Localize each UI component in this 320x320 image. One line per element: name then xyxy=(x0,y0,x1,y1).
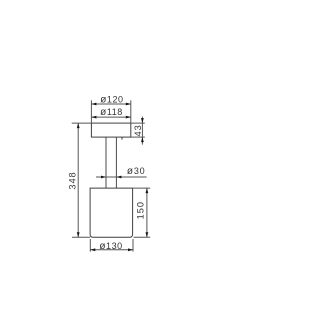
extension line left of dia120/dia118 xyxy=(90,100,92,123)
dim150 top arrow xyxy=(146,188,149,193)
stem right line xyxy=(115,137,117,188)
stem left line xyxy=(105,137,107,188)
svg-text:ø120: ø120 xyxy=(100,95,123,106)
dim43 upper arrow xyxy=(141,118,144,123)
dia118 right arrow xyxy=(126,116,131,119)
dim43 top extension line xyxy=(131,122,145,124)
dia120 right arrow xyxy=(126,103,131,106)
dia30 right arrow xyxy=(116,176,121,179)
dim150 top extension line xyxy=(133,187,151,189)
dim43 dimension line xyxy=(141,117,143,145)
body outline xyxy=(90,188,133,237)
svg-text:ø30: ø30 xyxy=(127,166,146,177)
lamp head disc outline xyxy=(91,123,130,137)
extension line right of dia120/dia118 xyxy=(130,100,132,123)
dia30 left arrow xyxy=(101,176,106,179)
dim348 bottom extension line xyxy=(72,236,90,238)
dia120 left arrow xyxy=(91,103,96,106)
svg-text:348: 348 xyxy=(67,171,77,189)
dim43 bottom extension line xyxy=(131,136,145,138)
dim348 top extension line xyxy=(72,122,92,124)
svg-text:150: 150 xyxy=(135,201,145,219)
dim348 dimension line xyxy=(77,123,79,237)
dim150 bottom arrow xyxy=(146,232,149,237)
dia130 right arrow xyxy=(128,248,133,251)
dia118 dimension line xyxy=(91,116,130,118)
dim348 top arrow xyxy=(77,123,80,128)
svg-text:43: 43 xyxy=(133,124,143,136)
dia130 right extension line xyxy=(132,239,134,252)
dia130 dimension line xyxy=(90,249,133,251)
dia130 left arrow xyxy=(90,248,95,251)
dim150 dimension line xyxy=(146,188,148,237)
head bottom detail tick xyxy=(121,137,123,140)
dim348 bottom arrow xyxy=(77,232,80,237)
dim150 bottom extension line xyxy=(134,236,151,238)
dia120 dimension line xyxy=(91,103,130,105)
svg-text:ø130: ø130 xyxy=(99,241,122,252)
dia30 dimension line xyxy=(96,176,147,178)
dim43 lower arrow xyxy=(141,137,144,142)
dia118 left arrow xyxy=(91,116,96,119)
dia130 left extension line xyxy=(89,239,91,252)
svg-text:ø118: ø118 xyxy=(100,107,123,118)
